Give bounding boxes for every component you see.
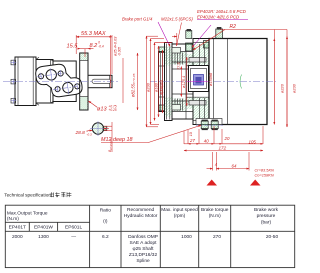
stud bottom (172, 105, 181, 111)
svg-text:M22x1.5 (6PCS): M22x1.5 (6PCS) (161, 17, 193, 22)
svg-text:Brake torque: Brake torque (201, 207, 229, 213)
stud top (172, 48, 181, 54)
svg-text:8.2: 8.2 (90, 43, 99, 49)
svg-text:Hydraulic Motor: Hydraulic Motor (124, 213, 158, 219)
svg-text:6.2: 6.2 (102, 234, 109, 240)
EP401W PCD label (192, 14, 248, 50)
svg-text:Co=158KN: Co=158KN (255, 172, 274, 177)
svg-text:ø220: ø220 (280, 83, 285, 93)
port end plate (80, 53, 88, 110)
svg-text:Recommend: Recommend (127, 207, 155, 213)
dim line 5 (162, 50, 164, 113)
svg-text:64: 64 (232, 163, 237, 168)
svg-text:ø125.4: ø125.4 (181, 75, 186, 88)
bottom wheel bolt right (211, 120, 218, 131)
svg-text:2000: 2000 (12, 234, 23, 240)
svg-text:Z13,DP16/32: Z13,DP16/32 (129, 252, 158, 258)
planet pin bottom (189, 101, 206, 106)
svg-text:-0.4: -0.4 (98, 45, 104, 49)
dim phi82.55 pilot (123, 53, 138, 110)
svg-text:Brake port G1/4: Brake port G1/4 (122, 17, 153, 22)
flange big hole upper (45, 68, 57, 83)
svg-text:ø230: ø230 (292, 83, 297, 93)
flange small hole 3 (55, 85, 61, 92)
bottom wheel bolt left (201, 120, 208, 131)
spec table (5, 205, 294, 267)
svg-text:φ25 Shaft: φ25 Shaft (133, 246, 155, 252)
plate hatch bottom (165, 98, 172, 117)
svg-text:M12 deep 18: M12 deep 18 (101, 137, 132, 143)
carrier bolt top (186, 43, 193, 51)
rear bolt tab bottom (11, 98, 17, 104)
svg-text:Brake work: Brake work (254, 207, 279, 213)
stack tails (147, 126, 159, 128)
main mounting plate (165, 43, 173, 121)
brake drum (209, 39, 267, 125)
dim phi220 left (151, 39, 159, 125)
wheel bolt centerline (196, 124, 223, 126)
svg-text:—: — (71, 235, 76, 240)
svg-text:EP601L: EP601L (65, 224, 82, 230)
svg-text:15.5: 15.5 (67, 44, 79, 50)
svg-text:ø150h8: ø150h8 (208, 72, 213, 86)
mounting flange plate (35, 61, 83, 99)
svg-text:R2: R2 (230, 24, 237, 30)
rear bolt tab top (11, 60, 17, 66)
top plug right (216, 27, 223, 39)
dim line 4 (158, 46, 160, 117)
svg-text:EP401W: 4Ø1.6 PCD: EP401W: 4Ø1.6 PCD (197, 14, 240, 19)
dim phi220 right (274, 30, 284, 125)
spline centerline (187, 81, 215, 83)
index triangle right (250, 180, 261, 186)
svg-text:27: 27 (189, 138, 195, 143)
dim 77.5 (176, 62, 181, 97)
svg-text:(bar): (bar) (261, 219, 272, 225)
svg-text:ø230: ø230 (145, 82, 150, 92)
motor middle section (36, 57, 53, 105)
dim 55.3 MAX (76, 31, 112, 74)
svg-text:Ratio: Ratio (100, 208, 112, 214)
svg-text:40: 40 (204, 139, 209, 144)
output shaft (88, 75, 112, 87)
flange small hole 2 (58, 70, 64, 77)
shaft section circle (90, 121, 108, 136)
svg-text:Technical specification: Technical specification (4, 193, 51, 198)
dim phi125.4 (181, 57, 187, 106)
svg-text:EP401W: EP401W (34, 224, 53, 230)
svg-text:105: 105 (249, 139, 257, 144)
plate hatch top (165, 47, 172, 66)
svg-text:20: 20 (224, 136, 230, 141)
svg-text:(N.m): (N.m) (7, 216, 19, 222)
wheel flange lip (196, 119, 222, 125)
svg-text:(N.m): (N.m) (209, 213, 221, 219)
svg-text:pressure: pressure (257, 213, 276, 219)
svg-text:(rpm): (rpm) (174, 213, 186, 219)
drum green mark arc (240, 75, 242, 89)
M22 label (161, 17, 193, 47)
svg-text:77.5: 77.5 (176, 62, 181, 70)
R2 label (220, 24, 287, 30)
svg-text:20-50: 20-50 (266, 234, 279, 240)
svg-text:ø82.55₀₊₀.₀₅: ø82.55₀₊₀.₀₅ (131, 73, 136, 97)
brake disc splines (175, 53, 183, 111)
svg-text:-0.005: -0.005 (118, 47, 122, 56)
svg-text:28.8: 28.8 (75, 130, 86, 136)
svg-text:SAE A adopt: SAE A adopt (130, 240, 158, 246)
rear bolt tab middle (11, 79, 17, 85)
svg-text:+0.25: +0.25 (109, 108, 117, 112)
main centerline (3, 81, 120, 83)
svg-text:ø13: ø13 (97, 106, 108, 112)
dim phi25 shaft (110, 35, 121, 88)
dim 8 key width (108, 122, 112, 152)
gear face lines (186, 65, 209, 67)
svg-text:Max.Output Torque: Max.Output Torque (7, 211, 48, 217)
dim 4 and 64 row3 (207, 152, 250, 171)
svg-text:EP401R: 160±1.5 8 PCD: EP401R: 160±1.5 8 PCD (197, 9, 247, 14)
center piston block (189, 66, 209, 92)
dim 172 row2 (184, 145, 263, 150)
top plug left (186, 29, 192, 39)
index triangle left (207, 180, 218, 186)
M12 deep 18 label (101, 125, 201, 143)
adjuster bolt top left (159, 47, 165, 53)
svg-text:55.3 MAX: 55.3 MAX (81, 31, 106, 37)
svg-text:Spline: Spline (136, 258, 150, 264)
load rating note (255, 167, 275, 177)
shaft keyway (92, 79, 111, 83)
svg-text:1000: 1000 (181, 234, 192, 240)
dim phi230 left (145, 36, 150, 127)
svg-text:EP401T: EP401T (9, 224, 26, 230)
flange small hole 4 (74, 83, 80, 90)
dim 28.8 key (75, 126, 113, 136)
section centerline (150, 81, 188, 83)
carrier bolt top right (204, 41, 210, 49)
svg-text:1300: 1300 (38, 234, 49, 240)
brake cover plate (159, 52, 165, 112)
planet carrier (187, 39, 210, 125)
svg-text:Danfoss OMP: Danfoss OMP (128, 234, 158, 240)
hub block (172, 44, 193, 119)
motor front section (53, 61, 76, 102)
brake port label (122, 17, 170, 47)
flange small hole 1 (38, 73, 44, 80)
flange big hole lower (62, 80, 74, 95)
dim 8.2 (79, 40, 104, 57)
small top dim (176, 33, 178, 44)
flange hole row centerline upper (37, 73, 65, 77)
dim phi230 right (287, 30, 297, 128)
adjuster bolt bottom left (159, 105, 165, 111)
dim 4-M8 left (155, 43, 164, 121)
bottom dimension chain row1 (184, 126, 263, 144)
dim phi13 ports (89, 101, 117, 112)
svg-text:Max. input speed: Max. input speed (161, 207, 198, 213)
svg-text:(i): (i) (103, 219, 108, 225)
planet pin top (189, 58, 206, 63)
motor rear body (15, 57, 36, 106)
svg-text:172: 172 (219, 145, 227, 150)
svg-text:10: 10 (189, 132, 193, 136)
flange hole row centerline lower (53, 86, 81, 90)
svg-text:-0.3: -0.3 (87, 132, 93, 136)
svg-text:270: 270 (213, 234, 221, 240)
